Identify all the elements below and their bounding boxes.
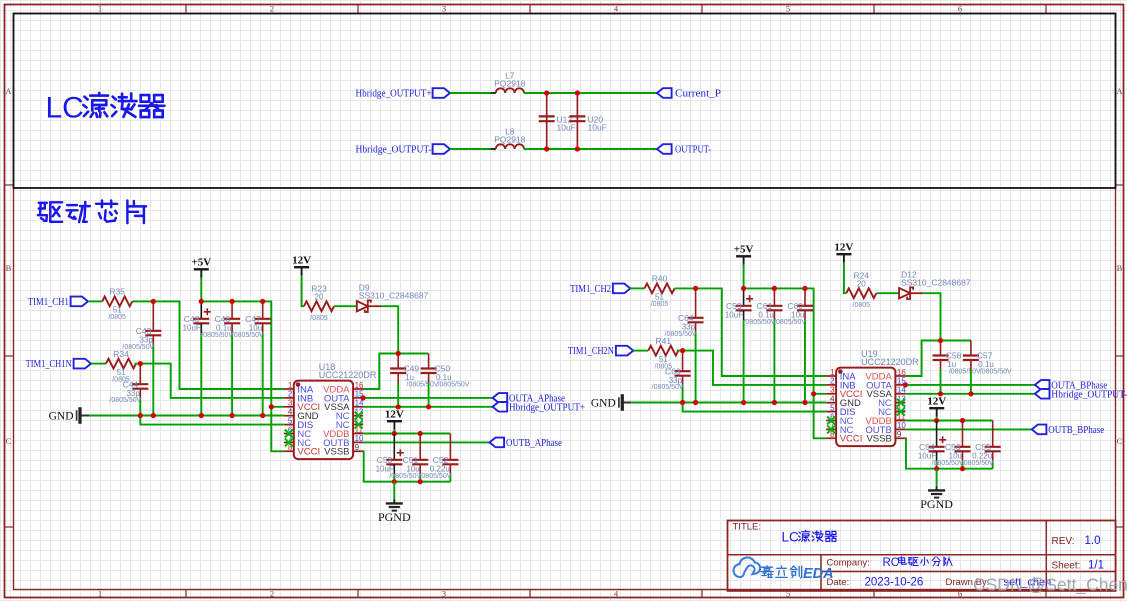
svg-text:TITLE:: TITLE:: [733, 522, 762, 533]
capacitor C43: [122, 301, 161, 415]
svg-text:6: 6: [958, 589, 962, 599]
svg-text:5: 5: [830, 403, 835, 412]
wire: [524, 92, 657, 94]
wire: [363, 441, 489, 443]
no-connect X: [827, 417, 835, 425]
wire: [630, 287, 644, 289]
junction dot: [938, 338, 943, 343]
svg-text:10: 10: [355, 434, 364, 443]
junction dot: [772, 400, 777, 405]
EasyEDA logo: [734, 557, 834, 582]
power 12V: [292, 254, 311, 275]
svg-text:14: 14: [897, 386, 906, 395]
op-amp U19: [826, 349, 919, 446]
svg-text:16: 16: [897, 368, 906, 377]
capacitor C64: [665, 288, 704, 402]
section title 驱动芯片: [38, 201, 146, 224]
junction dot: [960, 466, 965, 471]
svg-text:Hbridge_OUTPUT-: Hbridge_OUTPUT-: [356, 145, 432, 156]
svg-text:2: 2: [830, 377, 835, 386]
svg-text:GND: GND: [591, 398, 616, 410]
junction dot: [575, 146, 580, 151]
wire: [363, 354, 429, 390]
wire: [744, 288, 827, 393]
junction dot: [418, 431, 423, 436]
svg-text:A: A: [5, 86, 12, 96]
Sheet field: [1052, 559, 1105, 571]
wire: [140, 416, 283, 425]
junction dot: [151, 299, 156, 304]
svg-text:PQ2918: PQ2918: [494, 135, 525, 145]
wire: [302, 276, 304, 307]
svg-text:1: 1: [830, 368, 835, 377]
svg-text:B: B: [1117, 263, 1123, 273]
svg-text:UCC21220DR: UCC21220DR: [861, 357, 919, 367]
port Hbridge_OUTPUT-: [1035, 389, 1127, 400]
svg-text:10uF: 10uF: [557, 123, 576, 133]
resistor R40: [645, 274, 675, 309]
svg-text:TIM1_CH2N: TIM1_CH2N: [568, 346, 614, 357]
junction dot: [802, 400, 807, 405]
svg-text:/0805: /0805: [651, 301, 669, 308]
no-connect X: [897, 408, 905, 416]
svg-text:/0805/50V: /0805/50V: [980, 369, 1012, 376]
svg-text:10uF: 10uF: [183, 323, 201, 332]
capacitor C44: [109, 364, 148, 416]
port Hbridge_OUTPUT-: [356, 144, 451, 155]
junction dot: [680, 348, 685, 353]
wire: [201, 301, 283, 406]
wire: [381, 306, 398, 353]
svg-text:2: 2: [270, 589, 274, 599]
wire: [393, 482, 395, 504]
svg-text:OUTB_APhase: OUTB_APhase: [506, 438, 562, 449]
ground PGND: [378, 499, 411, 524]
svg-text:/0805: /0805: [108, 314, 126, 321]
svg-text:REV:: REV:: [1052, 536, 1075, 547]
junction dot: [260, 413, 265, 418]
svg-text:+5V: +5V: [734, 244, 754, 256]
wire: [271, 407, 284, 452]
svg-text:/0805/50V: /0805/50V: [962, 460, 994, 467]
svg-text:15: 15: [897, 377, 906, 386]
ground GND: [591, 394, 631, 411]
svg-text:Current_P: Current_P: [675, 89, 721, 100]
junction dot: [903, 382, 908, 387]
junction dot: [934, 418, 939, 423]
capacitor C59: [725, 288, 753, 402]
svg-text:PGND: PGND: [378, 510, 411, 524]
wire: [368, 305, 382, 307]
port TIM1_CH1: [28, 297, 88, 308]
svg-text:9: 9: [355, 443, 360, 452]
watermark CSDN: [973, 575, 1127, 596]
svg-text:/0805/50V: /0805/50V: [232, 332, 264, 339]
wire: [675, 288, 827, 376]
svg-text:4: 4: [830, 395, 835, 404]
svg-text:/0805/50V: /0805/50V: [652, 384, 684, 391]
svg-text:PQ2918: PQ2918: [494, 79, 525, 89]
svg-text:Hbridge_OUTPUT+: Hbridge_OUTPUT+: [356, 89, 432, 100]
svg-text:VSSB: VSSB: [324, 447, 349, 458]
junction dot: [741, 400, 746, 405]
row letters: [5, 86, 1123, 446]
wire: [905, 428, 1031, 430]
wire: [633, 350, 648, 352]
wire: [844, 263, 846, 294]
junction dot: [396, 351, 401, 356]
resistor R34: [106, 349, 136, 384]
wire: [363, 433, 450, 435]
svg-text:10uF: 10uF: [725, 310, 743, 319]
wire: [363, 451, 450, 481]
svg-text:1: 1: [98, 589, 102, 599]
column numbers bottom: [98, 589, 962, 599]
Date field: [827, 577, 1052, 589]
svg-text:/0805/50V: /0805/50V: [438, 382, 470, 389]
svg-text:1.0: 1.0: [1085, 535, 1101, 547]
svg-text:3: 3: [288, 399, 293, 408]
capacitor C61: [743, 288, 782, 402]
wire: [923, 293, 940, 340]
svg-text:12V: 12V: [927, 395, 946, 407]
junction dot: [260, 299, 265, 304]
svg-text:15: 15: [355, 390, 364, 399]
capacitor C51: [389, 434, 428, 482]
wire: [363, 406, 493, 408]
resistor R41: [648, 336, 678, 371]
svg-text:10uF: 10uF: [588, 123, 607, 133]
svg-text:2023-10-26: 2023-10-26: [865, 577, 924, 589]
svg-text:PGND: PGND: [920, 497, 953, 511]
svg-text:/0805: /0805: [310, 315, 328, 322]
svg-text:20: 20: [315, 293, 324, 302]
svg-text:3: 3: [442, 589, 446, 599]
svg-text:20: 20: [857, 280, 866, 289]
junction dot: [680, 400, 685, 405]
svg-text:/0805/50V: /0805/50V: [389, 473, 421, 480]
junction dot: [418, 479, 423, 484]
svg-text:/0805/50V: /0805/50V: [774, 319, 806, 326]
svg-text:Hbridge_OUTPUT+: Hbridge_OUTPUT+: [509, 402, 585, 413]
svg-text:Sheet:: Sheet:: [1052, 560, 1081, 571]
port TIM1_CH2: [570, 284, 630, 295]
junction dot: [392, 431, 397, 436]
svg-text:3: 3: [442, 4, 446, 14]
capacitor C56: [932, 421, 971, 469]
junction dot: [802, 286, 807, 291]
svg-text:3: 3: [830, 386, 835, 395]
svg-text:12V: 12V: [834, 241, 853, 253]
ground PGND: [920, 486, 953, 511]
svg-text:OUTPUT-: OUTPUT-: [675, 145, 711, 156]
junction dot: [230, 413, 235, 418]
power 12V: [834, 241, 853, 262]
capacitor C48: [183, 301, 211, 415]
wire: [631, 402, 826, 404]
junction dot: [392, 479, 397, 484]
port TIM1_CH1N: [26, 359, 91, 370]
wire: [905, 384, 1035, 386]
diode D9: [357, 283, 429, 312]
svg-text:6: 6: [958, 4, 962, 14]
svg-text:A: A: [1116, 86, 1123, 96]
svg-text:VCCI: VCCI: [840, 434, 863, 445]
junction dot: [968, 391, 973, 396]
port TIM1_CH2N: [568, 346, 633, 357]
port OUTPUT-: [657, 144, 711, 155]
no-connect X: [897, 399, 905, 407]
no-connect X: [285, 438, 293, 446]
wire: [876, 292, 899, 294]
wire: [905, 341, 971, 377]
wire: [683, 403, 827, 412]
wire: [905, 438, 992, 468]
junction dot: [772, 286, 777, 291]
svg-text:12V: 12V: [292, 254, 311, 266]
port Current_P: [657, 88, 721, 99]
wire: [135, 364, 284, 398]
port OUTA_BPhase: [1035, 380, 1108, 391]
wire: [200, 278, 202, 302]
no-connect X: [827, 425, 835, 433]
svg-text:LC: LC: [782, 530, 800, 545]
port OUTA_APhase: [493, 393, 566, 404]
svg-text:/0805/50V: /0805/50V: [743, 319, 775, 326]
svg-text:+5V: +5V: [191, 257, 211, 269]
svg-text:2: 2: [288, 390, 293, 399]
power 12V: [927, 395, 946, 416]
svg-text:TIM1_CH1: TIM1_CH1: [28, 297, 69, 308]
svg-text:SS310_C2848687: SS310_C2848687: [359, 291, 429, 301]
wire: [88, 300, 102, 302]
svg-text:9: 9: [897, 430, 902, 439]
wire: [677, 351, 826, 385]
junction dot: [426, 404, 431, 409]
wire: [89, 415, 284, 417]
resistor R35: [102, 287, 132, 322]
svg-text:16: 16: [355, 381, 364, 390]
svg-text:1: 1: [288, 381, 293, 390]
junction dot: [138, 361, 143, 366]
capacitor C58: [933, 341, 982, 394]
junction dot: [138, 413, 143, 418]
wire: [363, 397, 493, 399]
svg-text:VSSB: VSSB: [866, 434, 891, 445]
svg-text:/0805: /0805: [853, 302, 871, 309]
junction dot: [544, 146, 549, 151]
wire: [905, 420, 992, 422]
title block frame: [728, 521, 1116, 591]
wire: [393, 430, 395, 434]
junction dot: [960, 418, 965, 423]
svg-text:Hbridge_OUTPUT-: Hbridge_OUTPUT-: [1051, 389, 1127, 400]
svg-text:R40: R40: [652, 274, 668, 284]
capacitor U12: [539, 95, 576, 147]
capacitor C53: [376, 434, 404, 482]
title text: [733, 522, 837, 545]
no-connect X: [355, 421, 363, 429]
section title LC滤波器: [46, 92, 165, 125]
no-connect X: [355, 412, 363, 420]
diode D12: [899, 270, 971, 299]
svg-text:/0805/50V: /0805/50V: [201, 332, 233, 339]
inductor L8: [491, 127, 529, 150]
svg-text:SS310_C2848687: SS310_C2848687: [901, 278, 971, 288]
wire: [936, 417, 938, 421]
capacitor C54: [918, 421, 946, 469]
svg-text:C: C: [6, 436, 12, 446]
LC filter section box: [14, 14, 1116, 189]
power +5V: [191, 257, 211, 278]
power +5V: [734, 244, 754, 265]
column numbers top: [98, 4, 962, 14]
port Hbridge_OUTPUT+: [356, 88, 451, 99]
capacitor C57: [963, 341, 1012, 394]
junction dot: [934, 466, 939, 471]
capacitor C49: [390, 354, 439, 407]
capacitor C47: [232, 301, 271, 415]
svg-text:/0805/50V: /0805/50V: [932, 460, 964, 467]
junction dot: [575, 90, 580, 95]
svg-text:/0805/50V: /0805/50V: [109, 397, 141, 404]
wire: [132, 301, 284, 389]
svg-text:UCC21220DR: UCC21220DR: [319, 370, 377, 380]
svg-text:TIM1_CH1N: TIM1_CH1N: [26, 359, 72, 370]
svg-text:1/1: 1/1: [1088, 559, 1104, 571]
svg-text:10: 10: [897, 421, 906, 430]
op-amp U18: [284, 362, 377, 459]
capacitor U20: [569, 95, 606, 147]
svg-text:5: 5: [288, 416, 293, 425]
svg-text:LC: LC: [46, 92, 84, 125]
svg-text:CSDN @Sett_Chen: CSDN @Sett_Chen: [973, 575, 1127, 596]
junction dot: [811, 391, 816, 396]
junction dot: [361, 395, 366, 400]
svg-text:R35: R35: [109, 287, 125, 297]
wire: [905, 393, 1035, 395]
wire: [450, 92, 496, 94]
port OUTB_BPhase: [1032, 425, 1105, 436]
wire: [91, 363, 106, 365]
svg-text:5: 5: [786, 589, 790, 599]
svg-text:12V: 12V: [385, 408, 404, 420]
svg-text:4: 4: [288, 408, 293, 417]
junction dot: [938, 391, 943, 396]
svg-text:1: 1: [98, 4, 102, 14]
junction dot: [151, 413, 156, 418]
Company field: [827, 557, 953, 569]
junction dot: [693, 400, 698, 405]
svg-text:TIM1_CH2: TIM1_CH2: [570, 284, 611, 295]
wire: [936, 469, 938, 491]
junction dot: [199, 413, 204, 418]
svg-text:5: 5: [786, 4, 790, 14]
svg-text:14: 14: [355, 399, 364, 408]
wire: [743, 265, 745, 289]
capacitor C52: [419, 434, 458, 482]
resistor R24: [846, 271, 876, 309]
wire: [524, 148, 657, 150]
svg-text:RC: RC: [883, 557, 900, 569]
wire: [334, 305, 357, 307]
junction dot: [693, 286, 698, 291]
svg-text:VCCI: VCCI: [297, 447, 320, 458]
power 12V: [385, 408, 404, 429]
svg-text:GND: GND: [49, 411, 74, 423]
svg-text:EDA: EDA: [803, 566, 834, 582]
ground GND: [49, 407, 89, 424]
resistor R23: [304, 284, 334, 322]
svg-text:/0805/50V: /0805/50V: [122, 344, 154, 351]
port OUTB_APhase: [490, 438, 563, 449]
junction dot: [544, 90, 549, 95]
inductor L7: [491, 71, 529, 94]
svg-text:/0805/50V: /0805/50V: [949, 369, 981, 376]
wire: [814, 394, 827, 439]
wire: [910, 292, 924, 294]
capacitor C63: [652, 351, 691, 403]
capacitor C50: [421, 354, 470, 407]
capacitor C60: [774, 288, 813, 402]
capacitor C55: [962, 421, 1001, 469]
junction dot: [199, 299, 204, 304]
svg-text:C: C: [1117, 436, 1123, 446]
junction dot: [230, 299, 235, 304]
svg-text:2: 2: [270, 4, 274, 14]
svg-text:/0805/50V: /0805/50V: [407, 382, 439, 389]
REV field: [1052, 535, 1101, 547]
wire: [450, 148, 496, 150]
svg-text:/0805/50V: /0805/50V: [419, 473, 451, 480]
svg-text:B: B: [6, 263, 12, 273]
port Hbridge_OUTPUT+: [493, 402, 585, 413]
svg-text:OUTB_BPhase: OUTB_BPhase: [1048, 425, 1104, 436]
no-connect X: [285, 430, 293, 438]
junction dot: [396, 404, 401, 409]
junction dot: [269, 404, 274, 409]
svg-text:/0805/50V: /0805/50V: [665, 331, 697, 338]
capacitor C46: [201, 301, 240, 415]
junction dot: [741, 286, 746, 291]
